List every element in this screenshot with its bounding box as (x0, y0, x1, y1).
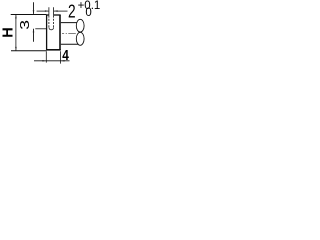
hole hidden lines (48, 16, 50, 28)
3 dim upper arrow line (33, 2, 35, 14)
4 left (right-pointing) (42, 60, 46, 62)
shaft top line (61, 22, 77, 24)
3 upper (down) (33, 10, 35, 14)
H dim line (15, 15, 17, 51)
4 right (left-pointing) (61, 60, 65, 62)
svg-text:3: 3 (18, 20, 32, 30)
3 dim extension line (hole bottom) (35, 28, 46, 30)
break figure-8 lower loop (76, 32, 84, 45)
2 dim line left/right (37, 10, 49, 12)
svg-text:4: 4 (62, 47, 69, 64)
part body rectangle (46, 15, 48, 50)
3 lower (up) (33, 29, 35, 33)
hole bottom (49, 28, 54, 30)
svg-text:H: H (1, 27, 17, 37)
svg-text:0: 0 (85, 7, 91, 19)
shaft bottom line (61, 43, 78, 45)
2 dim extension lines (48, 7, 50, 15)
arrowheads: H top (up) (15, 15, 17, 19)
4 dim line left/right (34, 60, 70, 62)
3 dim lower arrow line (33, 29, 35, 42)
2 right (left-pointing) (54, 10, 58, 12)
H bottom (down) (15, 47, 17, 51)
break figure-8 upper loop (76, 19, 84, 32)
4 dim extension lines (45, 51, 47, 62)
svg-text:2: 2 (68, 0, 76, 21)
2 left (right-pointing) (45, 10, 49, 12)
shaft center line dashes (62, 33, 76, 35)
H dim: top extension line (11, 14, 47, 16)
H dim: bottom extension line (11, 50, 47, 52)
